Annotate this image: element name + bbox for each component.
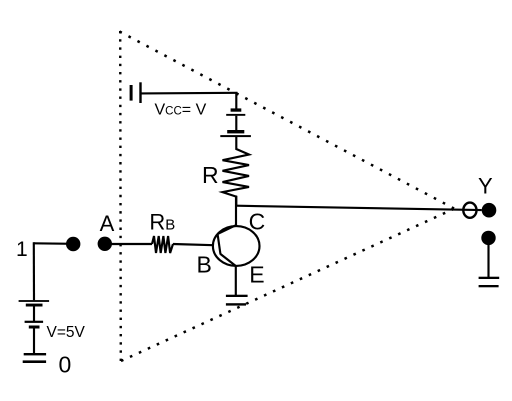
- VCC rail terminal short bar: [130, 85, 133, 101]
- ground 0 bar 2: [23, 360, 46, 363]
- svg-text:E: E: [249, 262, 264, 288]
- svg-text:B: B: [197, 251, 212, 277]
- emitter wire down to ground: [235, 266, 237, 295]
- inverter triangle outline: lower dotted hypotenuse: [121, 209, 454, 361]
- node dot below Y: [481, 231, 495, 245]
- battery V cell 2 thick bar: [29, 326, 40, 329]
- transistor Q1 collector stroke: [218, 225, 238, 234]
- transistor Q1 emitter stroke: [221, 254, 236, 266]
- battery VCC cell 1 thin bar: [226, 114, 245, 116]
- ground emitter bar 2: [226, 303, 246, 305]
- svg-text:Y: Y: [478, 173, 493, 198]
- wire collector up to resistor R: [235, 196, 237, 228]
- ground right bar 1: [479, 277, 500, 279]
- inverter triangle outline: upper dotted hypotenuse: [120, 32, 455, 209]
- svg-text:V=5V: V=5V: [47, 324, 86, 341]
- battery VCC cell 2 thick bar: [227, 130, 244, 133]
- svg-text:1: 1: [16, 238, 28, 261]
- battery V cell 1 thin bar: [19, 300, 49, 302]
- battery V cell 2 thin bar: [25, 321, 43, 323]
- wire vertical from node 1 down to battery: [33, 242, 35, 300]
- wire node A to resistor RB: [105, 243, 152, 245]
- junction dot at input: [66, 237, 80, 251]
- wire from node 1 to input dot: [34, 242, 74, 245]
- battery V cell 1 thick bar: [26, 304, 43, 307]
- node A dot: [98, 237, 112, 251]
- wire resistor RB to base: [173, 244, 214, 245]
- battery VCC cell 1 thick bar: [231, 108, 242, 111]
- transistor Q1 body circle: [213, 226, 260, 266]
- svg-text:0: 0: [59, 352, 72, 378]
- wire from lower dot to right ground: [487, 243, 489, 278]
- output dot Y: [482, 203, 497, 218]
- transistor Q1 base bar: [218, 234, 221, 255]
- ground emitter bar 1: [226, 295, 248, 297]
- wire VCC top from battery up: [235, 93, 237, 108]
- wire battery V to ground 0: [33, 328, 35, 354]
- output inverter bubble: [463, 203, 476, 218]
- ground right bar 2: [479, 285, 499, 287]
- battery VCC inter-cell wire: [235, 116, 237, 131]
- resistor RB: [152, 236, 173, 253]
- resistor R: [223, 137, 250, 206]
- battery V inter-cell wire: [33, 306, 35, 321]
- svg-text:C: C: [249, 209, 266, 235]
- wire collector node to output Y: [236, 206, 482, 210]
- battery VCC cell 2 thin bar: [220, 135, 251, 137]
- VCC rail terminal long bar: [139, 82, 141, 103]
- inverter triangle outline: left vertical dotted edge: [119, 31, 122, 361]
- wire VCC horizontal rail: [142, 92, 238, 95]
- svg-text:R: R: [202, 162, 219, 188]
- ground 0 bar 1: [24, 353, 46, 355]
- svg-text:A: A: [100, 211, 115, 236]
